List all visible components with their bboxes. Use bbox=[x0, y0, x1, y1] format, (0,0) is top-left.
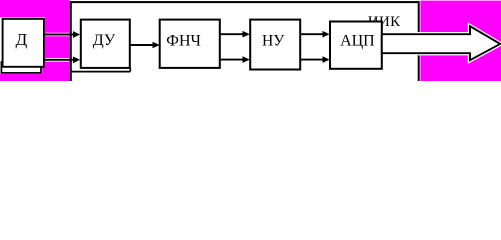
wire ДУ to ФНЧ bbox=[130, 44, 153, 46]
magenta background left bbox=[0, 0, 70, 81]
box ДУ lower step line bbox=[71, 71, 130, 73]
svg-text:НУ: НУ bbox=[262, 33, 285, 50]
page background bbox=[0, 0, 501, 81]
svg-text:АЦП: АЦП bbox=[340, 33, 375, 50]
wire Д to ДУ bottom bbox=[45, 58, 69, 62]
box Д lower step bbox=[1, 62, 41, 73]
svg-text:ФНЧ: ФНЧ bbox=[166, 33, 201, 50]
wire НУ to АЦП top bbox=[300, 33, 323, 35]
output block arrow white halo bbox=[383, 26, 500, 60]
svg-text:ДУ: ДУ bbox=[93, 32, 116, 49]
box Д (detector) bbox=[3, 19, 44, 67]
box ДУ (amplifier) bbox=[81, 20, 130, 68]
white halo around lower step bbox=[0, 67, 42, 74]
white margin around detector box bbox=[0, 17, 45, 67]
svg-text:Д: Д bbox=[16, 30, 28, 49]
wire Д to ДУ top bbox=[45, 33, 69, 37]
box АЦП (ADC) bbox=[330, 22, 382, 69]
wire ФНЧ to НУ bottom bbox=[220, 59, 243, 61]
big block U1 (measuring channel) bbox=[71, 2, 419, 94]
box НУ (normalizing amplifier) bbox=[250, 20, 300, 70]
magenta background right bbox=[420, 1, 501, 81]
output block arrow bbox=[382, 26, 500, 60]
box ФНЧ (low-pass filter) bbox=[160, 20, 220, 68]
wire ФНЧ to НУ top bbox=[220, 33, 243, 35]
wire НУ to АЦП bottom bbox=[300, 59, 323, 61]
